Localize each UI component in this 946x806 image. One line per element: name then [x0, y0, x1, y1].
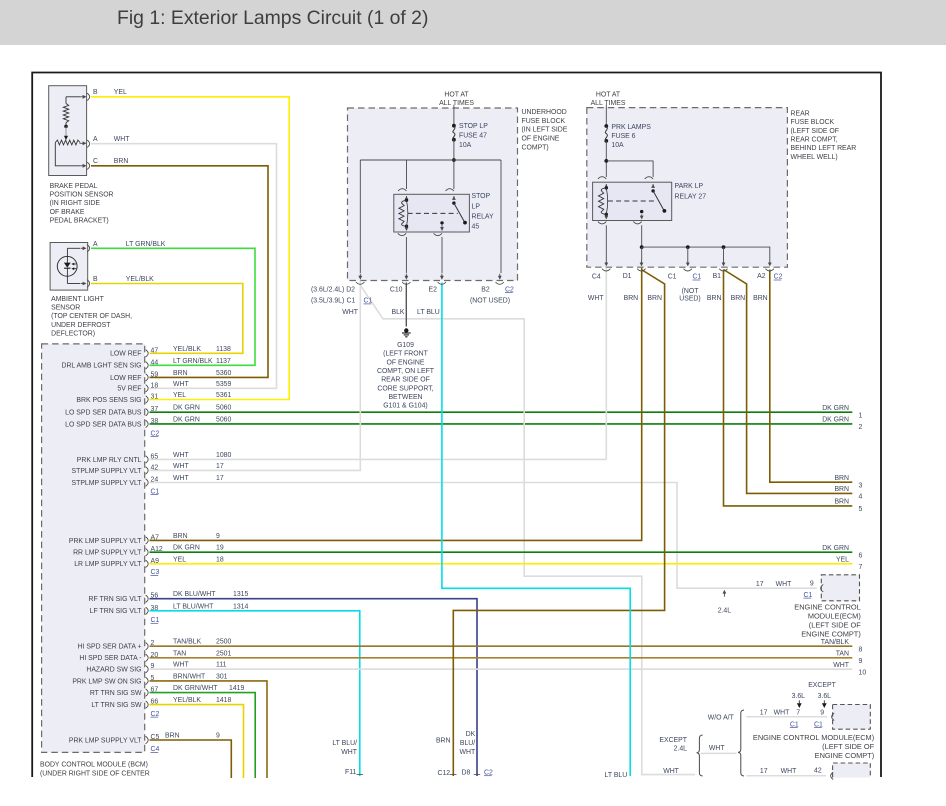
svg-text:(LEFT SIDE OF: (LEFT SIDE OF — [791, 128, 840, 135]
svg-text:2: 2 — [859, 424, 863, 431]
svg-text:DK GRN: DK GRN — [173, 545, 200, 552]
rear fuse block pin B1 — [723, 260, 725, 264]
svg-text:(IN LEFT SIDE: (IN LEFT SIDE — [522, 127, 568, 134]
svg-text:7: 7 — [796, 710, 800, 717]
svg-text:5: 5 — [151, 675, 155, 682]
outer diagram border — [32, 73, 881, 778]
svg-text:18: 18 — [151, 382, 159, 389]
ECM box 3 — [833, 763, 871, 778]
svg-text:31: 31 — [151, 394, 159, 401]
svg-text:YEL: YEL — [836, 557, 849, 564]
rear fuse block pin C4 — [605, 260, 607, 264]
prk lamps fuse 6 feed wire — [605, 105, 607, 126]
svg-text:WHT: WHT — [709, 745, 725, 752]
svg-text:38: 38 — [151, 605, 159, 612]
svg-text:2.4L: 2.4L — [718, 608, 732, 615]
svg-text:FUSE BLOCK: FUSE BLOCK — [522, 118, 566, 125]
relay 45 coil-switch dashed link — [408, 212, 458, 214]
svg-text:ENGINE COMPT): ENGINE COMPT) — [801, 630, 861, 639]
svg-text:E2: E2 — [429, 286, 438, 293]
brake pedal position sensor box — [49, 86, 87, 176]
svg-text:5060: 5060 — [216, 416, 231, 423]
svg-text:WHT: WHT — [173, 452, 189, 459]
svg-text:LO SPD SER DATA BUS: LO SPD SER DATA BUS — [65, 410, 142, 417]
svg-text:LO SPD SER DATA BUS: LO SPD SER DATA BUS — [65, 421, 142, 428]
svg-text:TAN/BLK: TAN/BLK — [173, 639, 202, 646]
wire BRN rear B1 second wire to stub 4 — [724, 270, 853, 494]
svg-text:YEL/BLK: YEL/BLK — [173, 346, 201, 353]
wire WHT circuit 5359 (brake pedal A to BCM 18) — [91, 144, 277, 389]
svg-text:YEL/BLK: YEL/BLK — [173, 697, 201, 704]
svg-text:LT BLU: LT BLU — [417, 309, 440, 316]
svg-text:(LEFT SIDE OF: (LEFT SIDE OF — [822, 742, 875, 751]
wire DK GRN circuit 5060 (BCM 37 lo spd serial data) — [150, 411, 853, 413]
svg-text:RT TRN SIG SW: RT TRN SIG SW — [90, 690, 142, 697]
svg-text:BODY CONTROL MODULE (BCM): BODY CONTROL MODULE (BCM) — [40, 762, 148, 769]
svg-text:TAN/BLK: TAN/BLK — [821, 639, 850, 646]
svg-text:FUSE BLOCK: FUSE BLOCK — [791, 119, 835, 126]
rear fuse block pin D1 — [641, 260, 643, 264]
svg-text:10: 10 — [859, 669, 867, 676]
svg-text:BRN: BRN — [165, 733, 180, 740]
relay 45 output terminal — [440, 221, 443, 224]
svg-text:USED): USED) — [679, 295, 700, 302]
rear fuse block pin A2/C2 — [769, 260, 771, 264]
svg-text:DK GRN: DK GRN — [173, 405, 200, 412]
svg-text:STOP: STOP — [472, 193, 491, 200]
svg-text:DK BLU/WHT: DK BLU/WHT — [173, 591, 216, 598]
svg-text:UNDERHOOD: UNDERHOOD — [522, 109, 567, 116]
svg-text:47: 47 — [151, 347, 159, 354]
svg-text:RR LMP SUPPLY VLT: RR LMP SUPPLY VLT — [73, 550, 142, 557]
svg-text:BRN: BRN — [647, 295, 662, 302]
stop lp fuse 47 feed wire — [453, 105, 455, 126]
brace A (except 2.4L group) — [697, 735, 703, 776]
svg-text:67: 67 — [151, 687, 159, 694]
rear fuse block pin C1 — [687, 260, 689, 264]
svg-text:RELAY: RELAY — [472, 213, 494, 220]
svg-text:65: 65 — [151, 453, 159, 460]
svg-text:C12: C12 — [438, 770, 451, 777]
svg-text:SENSOR: SENSOR — [51, 305, 80, 312]
svg-text:9: 9 — [820, 710, 824, 717]
wire YEL circuit 18 (BCM A9 lr lmp supply) — [150, 563, 853, 565]
svg-text:3: 3 — [859, 482, 863, 489]
svg-text:DK GRN: DK GRN — [822, 405, 849, 412]
svg-text:3.6L: 3.6L — [792, 693, 806, 700]
svg-text:B: B — [93, 89, 98, 96]
svg-text:YEL: YEL — [173, 392, 186, 399]
BCM pin 59 BRN 5360 (LOW REF) — [146, 374, 149, 381]
svg-text:24: 24 — [151, 477, 159, 484]
BCM pin A12 DK GRN 19 (RR LMP SUPPLY VLT) — [146, 549, 149, 556]
svg-text:WHT: WHT — [776, 581, 792, 588]
svg-text:59: 59 — [151, 371, 159, 378]
svg-text:REAR COMPT,: REAR COMPT, — [791, 137, 838, 144]
svg-text:DK: DK — [466, 731, 476, 738]
svg-text:RELAY 27: RELAY 27 — [675, 193, 707, 200]
svg-text:1419: 1419 — [229, 685, 244, 692]
svg-text:HOT AT: HOT AT — [596, 91, 621, 98]
svg-text:5: 5 — [859, 506, 863, 513]
svg-text:8: 8 — [859, 646, 863, 653]
ECM2 pin arc — [832, 713, 835, 720]
underhood fuse block pin E2 — [441, 274, 443, 278]
svg-text:BRN: BRN — [114, 158, 129, 165]
wire BRN circuit 5360 (brake pedal C to BCM 59) — [91, 166, 268, 378]
relay 27 coil-switch dashed link — [608, 200, 656, 202]
svg-text:2501: 2501 — [216, 650, 231, 657]
svg-text:WHEEL WELL): WHEEL WELL) — [791, 154, 838, 161]
svg-text:WHT: WHT — [774, 710, 790, 717]
svg-text:42: 42 — [814, 767, 822, 774]
svg-text:REAR SIDE OF: REAR SIDE OF — [381, 377, 430, 384]
svg-text:TAN: TAN — [836, 651, 849, 658]
svg-text:ALL TIMES: ALL TIMES — [591, 100, 626, 107]
svg-text:C5: C5 — [151, 734, 160, 741]
svg-text:A12: A12 — [151, 546, 163, 553]
wire DK BLU/WHT circuit 1315 (BCM 56 rf trn sig to D8) — [150, 599, 478, 776]
underhood fuse block pin C10 — [405, 274, 407, 278]
BCM pin A9 YEL 18 (LR LMP SUPPLY VLT) — [146, 560, 149, 567]
svg-text:(TOP CENTER OF DASH,: (TOP CENTER OF DASH, — [51, 313, 132, 320]
svg-text:C10: C10 — [390, 286, 403, 293]
svg-text:HI SPD SER DATA +: HI SPD SER DATA + — [78, 644, 142, 651]
svg-text:AMBIENT LIGHT: AMBIENT LIGHT — [51, 296, 105, 303]
svg-text:LT TRN SIG SW: LT TRN SIG SW — [91, 702, 142, 709]
svg-text:WHT: WHT — [173, 381, 189, 388]
svg-text:WHT: WHT — [114, 136, 130, 143]
svg-text:7: 7 — [859, 564, 863, 571]
svg-text:WHT: WHT — [781, 768, 797, 775]
wire LT BLU underhood E2 wire — [442, 283, 630, 777]
svg-text:COMPT): COMPT) — [522, 144, 549, 151]
svg-text:301: 301 — [216, 673, 228, 680]
svg-text:PARK LP: PARK LP — [675, 183, 704, 190]
svg-text:(LEFT SIDE OF: (LEFT SIDE OF — [809, 621, 862, 630]
svg-text:STPLMP SUPPLY VLT: STPLMP SUPPLY VLT — [72, 468, 143, 475]
svg-text:2: 2 — [151, 640, 155, 647]
stop lp fuse 47 10A — [452, 124, 456, 128]
wire YEL/BLK circuit 1138 (ambient light B to BCM 47) — [91, 284, 243, 354]
svg-text:6: 6 — [859, 552, 863, 559]
svg-text:PRK LMP SUPPLY VLT: PRK LMP SUPPLY VLT — [69, 538, 142, 545]
WHT wire into brace B — [701, 752, 737, 754]
svg-text:B: B — [93, 276, 98, 283]
svg-text:BRN: BRN — [436, 738, 451, 745]
svg-text:56: 56 — [151, 593, 159, 600]
svg-text:20: 20 — [151, 652, 159, 659]
svg-text:BRN: BRN — [707, 295, 722, 302]
svg-text:17: 17 — [216, 463, 224, 470]
svg-text:PRK LAMPS: PRK LAMPS — [611, 124, 651, 131]
svg-text:66: 66 — [151, 699, 159, 706]
BCM pin 9 WHT 111 (HAZARD SW SIG) — [146, 666, 149, 673]
svg-text:DK GRN/WHT: DK GRN/WHT — [173, 685, 218, 692]
svg-text:WHT: WHT — [341, 749, 357, 756]
BCM pin 38 LT BLU/WHT 1314 (LF TRN SIG VLT) — [146, 607, 149, 614]
wire DK GRN/WHT circuit 1419 (BCM 67 rt trn sig sw) — [150, 693, 256, 778]
svg-text:17: 17 — [756, 581, 764, 588]
BCM pin 47 YEL/BLK 1138 (LOW REF) — [146, 350, 149, 357]
BCM pin 44 LT GRN/BLK 1137 (DRL AMB LGHT SEN SIG) — [146, 362, 149, 369]
svg-text:EXCEPT: EXCEPT — [808, 682, 836, 689]
svg-text:10A: 10A — [459, 142, 472, 149]
svg-text:17: 17 — [760, 710, 768, 717]
svg-text:BRN/WHT: BRN/WHT — [173, 673, 206, 680]
svg-text:WHT: WHT — [833, 662, 849, 669]
svg-text:A9: A9 — [151, 558, 160, 565]
ECM1 pin arc — [821, 585, 824, 592]
svg-text:G109: G109 — [397, 342, 414, 349]
wire DK GRN circuit 5060 (BCM 38 lo spd serial data) — [150, 423, 853, 425]
svg-text:D1: D1 — [623, 273, 632, 280]
svg-text:A: A — [93, 136, 98, 143]
wire BRN rear D1 second wire to C12 — [453, 270, 664, 777]
svg-text:9: 9 — [216, 733, 220, 740]
relay 45 coil — [405, 199, 408, 202]
wire BRN circuit 9 (BCM C5 prk lmp supply) — [150, 740, 232, 778]
svg-text:ENGINE CONTROL: ENGINE CONTROL — [794, 603, 861, 612]
svg-text:BRAKE PEDAL: BRAKE PEDAL — [50, 183, 98, 190]
svg-text:LF TRN SIG VLT: LF TRN SIG VLT — [90, 608, 143, 615]
svg-text:BRN: BRN — [834, 499, 849, 506]
svg-text:BRN: BRN — [173, 533, 188, 540]
BCM pin 67 DK GRN/WHT 1419 (RT TRN SIG SW) — [146, 689, 149, 696]
svg-text:1315: 1315 — [233, 591, 248, 598]
wire BRN circuit 9 (BCM A7 prk lmp supply to rear D1) — [150, 268, 642, 541]
svg-text:C1: C1 — [347, 298, 356, 305]
svg-text:5060: 5060 — [216, 405, 231, 412]
svg-text:38: 38 — [151, 418, 159, 425]
svg-text:LOW REF: LOW REF — [110, 351, 141, 358]
relay 45 switch — [452, 201, 455, 204]
svg-text:BRN: BRN — [731, 295, 746, 302]
wire BLK underhood C10 to G109 — [405, 283, 407, 327]
svg-text:1418: 1418 — [216, 697, 231, 704]
svg-text:DRL AMB LGHT SEN SIG: DRL AMB LGHT SEN SIG — [61, 363, 141, 370]
wire LT GRN/BLK circuit 1137 (ambient light A to BCM 44) — [91, 248, 255, 365]
svg-text:42: 42 — [151, 464, 159, 471]
BCM pin 5 BRN/WHT 301 (PRK LMP SW ON SIG) — [146, 677, 149, 684]
relay 27 coil — [605, 186, 608, 189]
svg-text:YEL: YEL — [114, 89, 127, 96]
relay outputs to bottom pins — [405, 237, 407, 273]
brake pedal sensor pin C — [87, 162, 90, 169]
wire WHT circuit 17 (BCM 24 stplmp supply to ECM C1-9) — [150, 483, 817, 589]
brake pedal sensor pin B — [87, 93, 90, 100]
svg-text:(NOT USED): (NOT USED) — [470, 298, 510, 305]
ECM box 2 — [833, 705, 871, 730]
svg-text:OF BRAKE: OF BRAKE — [50, 209, 85, 216]
svg-text:(LEFT FRONT: (LEFT FRONT — [383, 351, 428, 358]
svg-text:DK GRN: DK GRN — [822, 417, 849, 424]
svg-text:45: 45 — [472, 224, 480, 231]
svg-text:HAZARD SW SIG: HAZARD SW SIG — [86, 667, 141, 674]
wire WHT rear fuse block C4 coil wire — [605, 268, 607, 460]
fuse 6 output junction — [605, 141, 607, 177]
wire BRN rear A2 wire to stub 3 — [770, 270, 853, 483]
svg-text:COMPT, ON LEFT: COMPT, ON LEFT — [377, 368, 435, 375]
svg-text:(3.6L/2.4L): (3.6L/2.4L) — [311, 286, 344, 293]
BCM pin 31 YEL 5361 (BRK POS SENS SIG) — [146, 396, 149, 403]
wire WHT circuit 17 branch (D2 to ECM row) — [361, 286, 696, 775]
svg-text:(NOT: (NOT — [682, 288, 700, 295]
svg-text:BRN: BRN — [834, 475, 849, 482]
svg-text:WHT: WHT — [173, 463, 189, 470]
svg-text:2.4L: 2.4L — [674, 746, 688, 753]
svg-text:1080: 1080 — [216, 452, 231, 459]
svg-text:BRK POS SENS SIG: BRK POS SENS SIG — [76, 397, 141, 404]
relay 45 coil terminal arcs/arrows — [398, 189, 406, 191]
wire BRN rear B1 wire to stub 5 — [724, 270, 853, 506]
svg-text:LR LMP SUPPLY VLT: LR LMP SUPPLY VLT — [74, 561, 142, 568]
svg-text:YEL: YEL — [173, 556, 186, 563]
BCM pin 66 YEL/BLK 1418 (LT TRN SIG SW) — [146, 701, 149, 708]
park lp relay 27 box — [593, 182, 672, 220]
ambient light sensor box — [50, 243, 88, 291]
svg-text:17: 17 — [216, 475, 224, 482]
svg-text:FUSE 47: FUSE 47 — [459, 133, 487, 140]
svg-text:DEFLECTOR): DEFLECTOR) — [51, 331, 95, 338]
underhood fuse block box — [348, 108, 518, 281]
svg-text:18: 18 — [216, 556, 224, 563]
svg-text:PRK LMP SW ON SIG: PRK LMP SW ON SIG — [72, 678, 141, 685]
relay 27 switch — [651, 189, 654, 192]
prk lamps fuse 6 10A — [604, 124, 608, 128]
svg-text:BLK: BLK — [391, 309, 404, 316]
svg-text:C4: C4 — [592, 274, 601, 281]
svg-text:1314: 1314 — [233, 603, 248, 610]
svg-text:5359: 5359 — [216, 381, 231, 388]
svg-text:BETWEEN: BETWEEN — [388, 394, 422, 401]
svg-text:9: 9 — [859, 658, 863, 665]
header bar — [0, 0, 946, 45]
svg-text:9: 9 — [151, 663, 155, 670]
svg-text:WHT: WHT — [663, 768, 679, 775]
svg-text:19: 19 — [216, 545, 224, 552]
svg-text:MODULE(ECM): MODULE(ECM) — [808, 612, 861, 621]
svg-text:YEL/BLK: YEL/BLK — [126, 276, 154, 283]
svg-text:37: 37 — [151, 406, 159, 413]
WHT wire from brace to ECM3 pin 42 — [746, 775, 826, 777]
svg-text:FUSE 6: FUSE 6 — [611, 133, 635, 140]
svg-text:LT GRN/BLK: LT GRN/BLK — [126, 241, 166, 248]
svg-text:W/O A/T: W/O A/T — [708, 715, 735, 722]
svg-text:LT GRN/BLK: LT GRN/BLK — [173, 358, 213, 365]
svg-text:B2: B2 — [481, 286, 490, 293]
underhood fuse block pin D2/C1 — [359, 274, 361, 278]
svg-text:TAN: TAN — [173, 650, 186, 657]
svg-text:1: 1 — [859, 412, 863, 419]
BCM pin 2 TAN/BLK 2500 (HI SPD SER DATA +) — [146, 643, 149, 650]
svg-text:B1: B1 — [713, 273, 722, 280]
svg-text:STOP LP: STOP LP — [459, 123, 488, 130]
svg-text:CORE SUPPORT,: CORE SUPPORT, — [377, 385, 433, 392]
svg-text:PRK LMP SUPPLY VLT: PRK LMP SUPPLY VLT — [69, 737, 142, 744]
svg-text:EXCEPT: EXCEPT — [659, 737, 687, 744]
svg-text:WHT: WHT — [173, 662, 189, 669]
BCM pin 20 TAN 2501 (HI SPD SER DATA -) — [146, 654, 149, 661]
underhood fuse block pin B2/C2 — [499, 274, 501, 278]
svg-text:9: 9 — [216, 533, 220, 540]
WHT wire from brace to ECM2 pins 7/9 — [746, 716, 827, 718]
svg-text:C1: C1 — [668, 274, 677, 281]
2.4L qualifier arrow — [723, 592, 725, 597]
svg-text:9: 9 — [810, 581, 814, 588]
svg-text:C: C — [93, 158, 98, 165]
svg-text:BEHIND LEFT REAR: BEHIND LEFT REAR — [791, 145, 857, 152]
BCM pin 37 DK GRN 5060 (LO SPD SER DATA BUS) — [146, 409, 149, 416]
wire WHT circuit 1080 (BCM 65 prk lmp rly cntl to rear C4) — [150, 458, 607, 460]
svg-text:LT BLU/: LT BLU/ — [332, 740, 357, 747]
wire TAN circuit 2501 (BCM 20 hi spd ser data -) — [150, 657, 853, 659]
brake pedal position sensor internals: resistor + wiper — [65, 97, 67, 104]
svg-text:BRN: BRN — [753, 295, 768, 302]
BCM pin A7 BRN 9 (PRK LMP SUPPLY VLT) — [146, 537, 149, 544]
svg-text:POSITION SENSOR: POSITION SENSOR — [50, 191, 114, 198]
BCM pin 24 WHT 17 (STPLMP SUPPLY VLT) — [146, 479, 149, 486]
svg-text:(IN RIGHT SIDE: (IN RIGHT SIDE — [50, 200, 101, 207]
ambient light sensor pin B — [87, 280, 90, 287]
svg-text:4: 4 — [859, 494, 863, 501]
fuse output junction + distribution — [453, 140, 455, 189]
svg-text:BLU/: BLU/ — [460, 740, 475, 747]
svg-text:5361: 5361 — [216, 392, 231, 399]
relay 27 output terminal — [640, 210, 643, 213]
svg-text:UNDER DEFROST: UNDER DEFROST — [51, 322, 111, 329]
svg-text:3.6L: 3.6L — [818, 693, 832, 700]
BCM pin 42 WHT 17 (STPLMP SUPPLY VLT) — [146, 467, 149, 474]
svg-text:D2: D2 — [346, 286, 355, 293]
svg-text:LT BLU: LT BLU — [605, 772, 628, 779]
svg-text:(UNDER RIGHT SIDE OF CENTER: (UNDER RIGHT SIDE OF CENTER — [40, 770, 150, 777]
ambient light sensor photodiode — [57, 256, 77, 276]
BCM pin C5 BRN 9 (PRK LMP SUPPLY VLT) — [146, 736, 149, 743]
svg-text:WHT: WHT — [459, 749, 475, 756]
wire YEL circuit 5361 (brake pedal B to BCM 31) — [91, 97, 289, 400]
svg-text:OF ENGINE: OF ENGINE — [522, 136, 560, 143]
wire LT BLU/WHT circuit 1314 (BCM 38 lf trn sig to F11) — [150, 611, 360, 776]
svg-text:1138: 1138 — [216, 346, 231, 353]
wire DK GRN circuit 19 (BCM A12 rr lmp supply) — [150, 551, 853, 553]
relay 27 terminal arcs/arrows — [598, 177, 606, 179]
stop lp relay 45 box — [394, 194, 470, 232]
svg-text:1137: 1137 — [216, 358, 231, 365]
svg-text:G101 & G104): G101 & G104) — [383, 403, 427, 410]
svg-text:ALL TIMES: ALL TIMES — [439, 100, 474, 107]
svg-text:WHT: WHT — [342, 309, 358, 316]
svg-text:WHT: WHT — [588, 295, 604, 302]
body control module (BCM) connector box — [42, 344, 145, 753]
svg-text:HI SPD SER DATA -: HI SPD SER DATA - — [79, 655, 141, 662]
svg-text:17: 17 — [760, 768, 768, 775]
svg-text:A7: A7 — [151, 534, 160, 541]
svg-text:HOT AT: HOT AT — [444, 91, 469, 98]
rear fuse block box — [587, 108, 788, 268]
svg-text:BRN: BRN — [173, 370, 188, 377]
svg-text:(3.5L/3.9L): (3.5L/3.9L) — [311, 298, 344, 305]
svg-text:DK GRN: DK GRN — [822, 545, 849, 552]
svg-text:Fig 1: Exterior Lamps Circuit: Fig 1: Exterior Lamps Circuit (1 of 2) — [117, 7, 428, 29]
svg-text:BRN: BRN — [624, 295, 639, 302]
svg-text:PRK LMP RLY CNTL: PRK LMP RLY CNTL — [77, 457, 142, 464]
ECM3 pin arc — [831, 772, 834, 779]
wire WHT circuit 111 (BCM 9 hazard sw sig) — [150, 668, 853, 670]
svg-text:ENGINE CONTROL MODULE(ECM): ENGINE CONTROL MODULE(ECM) — [753, 733, 874, 742]
svg-text:2500: 2500 — [216, 639, 231, 646]
svg-text:44: 44 — [151, 359, 159, 366]
